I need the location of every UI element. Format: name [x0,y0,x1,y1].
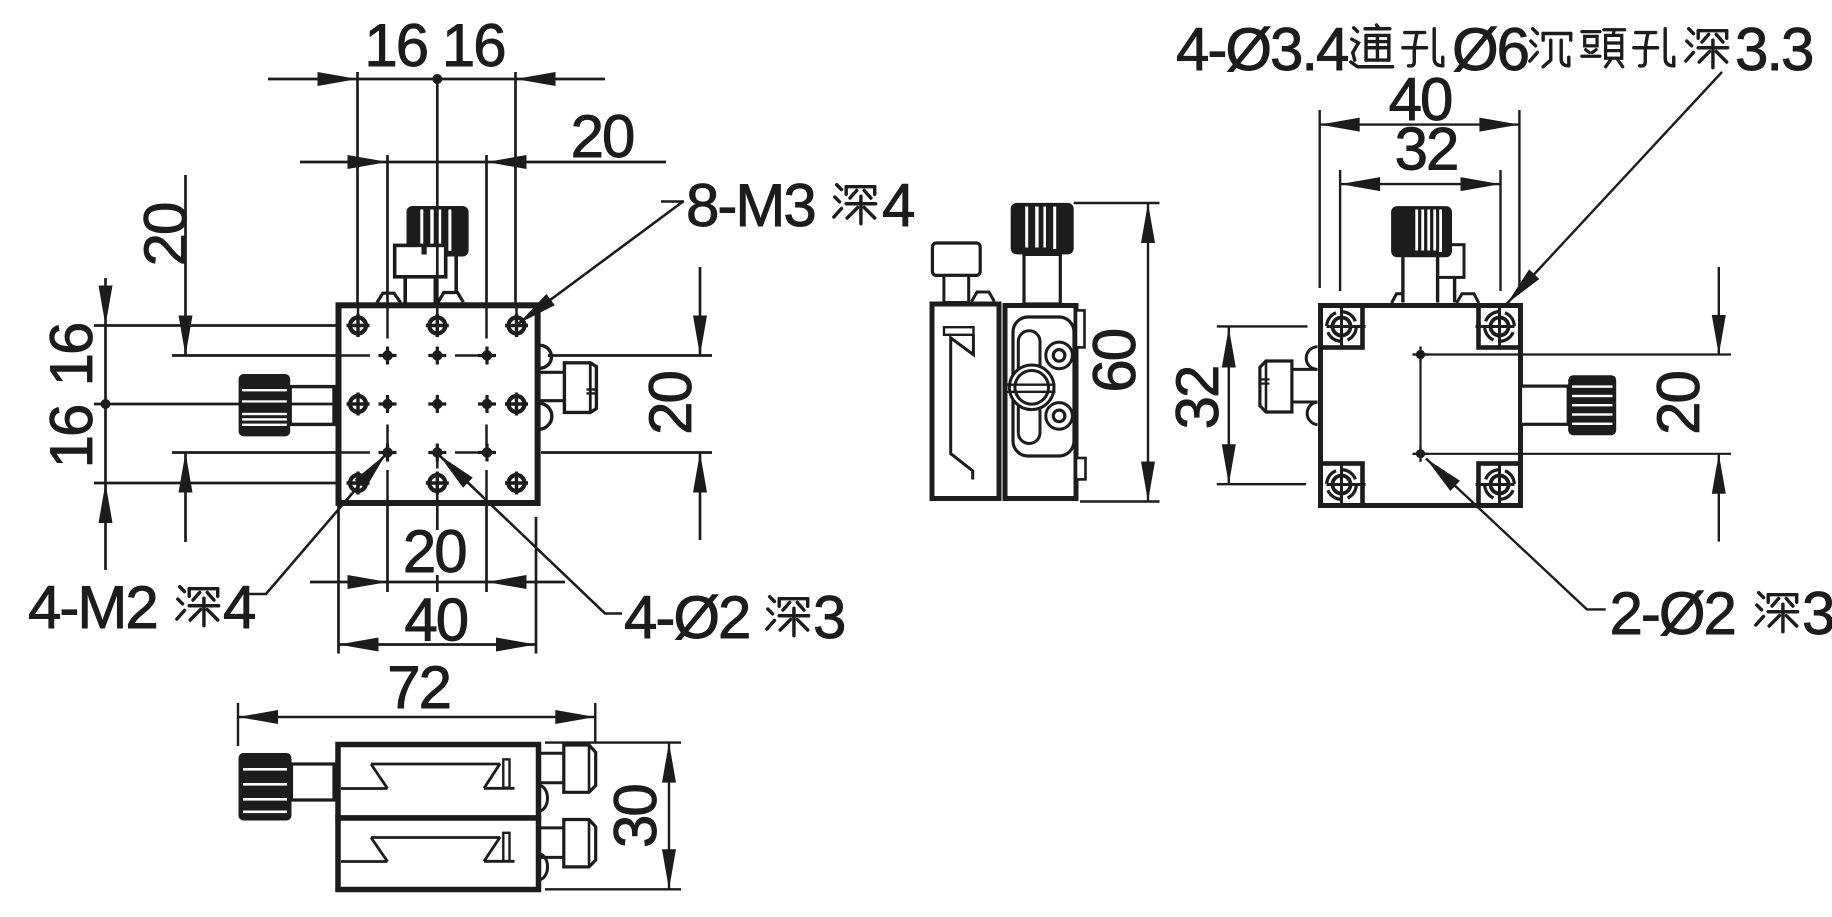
back clamp block [1438,245,1464,278]
left edge plunger bumps [1306,347,1317,425]
right adjuster screw shaft [540,372,564,400]
2 pilot dots [1413,347,1732,462]
back right knob [1568,375,1616,435]
svg-text:40: 40 [404,587,467,654]
svg-text:3.3: 3.3 [1735,16,1812,83]
saddle block (left) [932,304,999,499]
right edge bumps [539,785,548,880]
saddle top bump [972,292,995,302]
dim 40 (back) [1320,66,1520,288]
svg-text:4-Ø2: 4-Ø2 [624,584,749,651]
svg-text:4-Ø3.4: 4-Ø3.4 [1176,16,1348,83]
svg-text:3: 3 [1802,580,1832,647]
middle left cap screw [932,243,980,303]
upper pin ring [1046,342,1073,369]
svg-text:32: 32 [1395,116,1458,183]
svg-text:20: 20 [571,103,634,170]
svg-text:4: 4 [223,574,255,641]
upper slide block [338,745,539,819]
svg-text:Ø6: Ø6 [1452,16,1528,83]
svg-text:72: 72 [387,654,450,721]
dim 20 (right) [541,267,712,540]
interior centerlines [341,308,517,501]
svg-text:2-Ø2: 2-Ø2 [1610,580,1735,647]
lower dovetail section [341,833,515,862]
svg-text:20: 20 [403,518,466,585]
svg-text:3: 3 [813,584,844,651]
back left screw head [1260,361,1292,412]
back body square [1321,306,1521,506]
leader 4-O3.4 counterbore [1176,16,1812,308]
right adjuster screw head [564,363,596,413]
svg-text:8-M3: 8-M3 [686,172,815,239]
dim 20 (top) [300,103,666,305]
side plate [1013,317,1074,456]
left knob (X axis) [239,374,291,436]
svg-text:32: 32 [1164,367,1231,430]
left knob shaft [290,387,334,425]
lower slide block [338,818,539,890]
8 small holes + center mark [379,347,497,462]
svg-text:16: 16 [38,406,105,469]
leader 8-M3 [514,172,914,329]
svg-text:20: 20 [132,203,199,266]
dim 16 16 (top) [268,12,605,305]
svg-text:20: 20 [637,372,704,435]
dim 30 [545,743,681,890]
svg-text:16: 16 [38,324,105,387]
bottom view knob [239,753,292,821]
top mount feet [377,293,463,303]
lower pin ring [1046,403,1073,430]
svg-text:4-M2: 4-M2 [28,574,157,641]
top clamp block [395,245,446,276]
8 M3 tapped holes [347,314,529,495]
back right knob shaft [1521,386,1569,424]
top spindle shaft [405,257,456,303]
svg-text:60: 60 [1081,329,1148,392]
stage block (right) [1005,306,1076,499]
saddle dovetail section [951,335,974,480]
stage block bottom tab [1076,458,1086,479]
leader 2-O2 [1421,453,1832,647]
leader 4-M2 [28,449,391,641]
stage block top tab [1076,310,1085,347]
dim 16 16 (left) [38,278,338,570]
upper lock screw [536,745,596,792]
oblong slot [1018,331,1040,444]
dim 20 (left) [132,175,338,542]
dim 72 [238,654,595,746]
leader 4-O2 [434,450,844,651]
svg-text:30: 30 [602,785,669,848]
back mount feet [1392,294,1479,303]
dim 40 (bottom) [339,506,537,654]
back top knob [1391,206,1452,257]
stage body square [339,305,538,503]
dim 60 [1074,203,1160,502]
svg-text:20: 20 [1645,372,1712,435]
dim 32 (back left) [1164,326,1308,484]
dim 20 (bottom) [310,506,565,593]
leadscrew end [1008,365,1056,410]
middle knob shaft [1024,254,1060,304]
dim 32 (back top) [1340,116,1500,292]
dim 20 (back right) [1645,267,1726,542]
right edge plunger bumps [540,345,552,429]
upper dovetail section [341,759,515,788]
middle knob [1011,203,1074,255]
bottom view knob shaft [292,764,335,800]
svg-text:4: 4 [882,172,914,239]
lower lock screw [536,820,596,867]
back spindle shaft [1403,257,1455,302]
back left screw shaft [1292,369,1318,402]
top knob (Y axis) [407,206,469,257]
saddle gib slot [944,327,974,335]
svg-text:16 16: 16 16 [364,12,504,79]
4 counterbore holes [1321,304,1521,508]
